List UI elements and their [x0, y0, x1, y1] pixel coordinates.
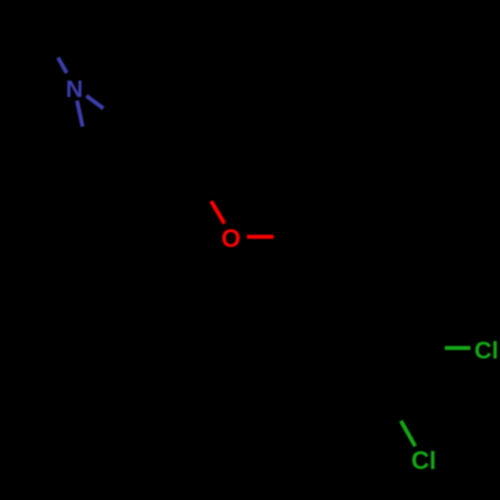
wire bond N-C2 (blue half) [86, 96, 103, 109]
svg-text:Cl: Cl [411, 447, 436, 475]
wire bond O-CH2 (red half) [247, 235, 274, 239]
wire bond C4'-Cl (green half) [401, 421, 415, 446]
wire bond C3'-Cl (green half) [445, 346, 471, 350]
svg-text:O: O [221, 225, 240, 253]
wire bond C3-O (red half) [211, 201, 224, 223]
wire bond CH3-N (blue half) [58, 58, 67, 73]
svg-text:N: N [66, 76, 83, 103]
svg-text:Cl: Cl [474, 337, 498, 364]
wire bond N-C8 (blue half) [77, 101, 83, 127]
